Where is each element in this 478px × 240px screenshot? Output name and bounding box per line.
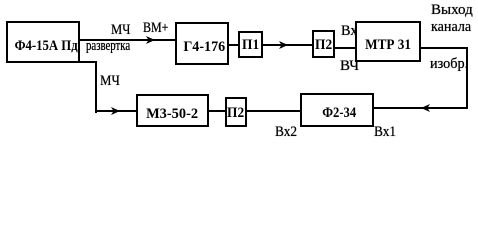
wire W6 vertical down right side <box>466 47 468 109</box>
wire W9 into М3-50-2 <box>95 110 136 112</box>
wire W11 П2 to Ф2-34 <box>247 110 300 112</box>
block U2 Г4-176 <box>175 22 229 65</box>
wire W4 П2 to МТР 31 <box>335 47 355 49</box>
block U4 П2 (top) <box>312 30 335 58</box>
wire W1 Ф4-15А to Г4-176 <box>80 39 175 41</box>
label ВМ+ <box>143 21 168 36</box>
label канала <box>431 20 471 35</box>
wire W2 Г4-176 to П1 <box>229 44 238 46</box>
block U6 М3-50-2 <box>136 94 209 127</box>
block U3 П1 <box>238 31 263 58</box>
arrowhead on wire W7 (points left into Ф2-34) <box>421 104 430 112</box>
label МЧ (top) <box>111 23 130 38</box>
label Выход <box>431 3 473 18</box>
label Вх (pin of МТР 31) <box>341 24 357 39</box>
label Вх1 (pin of Ф2-34) <box>374 125 396 140</box>
arrowhead on wire W1 <box>146 36 155 44</box>
label МЧ (middle left) <box>100 74 120 89</box>
block U5 МТР 31 <box>355 21 421 62</box>
block U1 Ф4-15А Пд <box>6 21 80 63</box>
wire W7 right vertical to Ф2-34 <box>374 107 468 109</box>
wire W8b vertical МЧ down <box>95 61 97 113</box>
wire W8 stub from Ф4-15А bottom <box>78 61 97 63</box>
wire W3 П1 to П2 <box>263 44 312 46</box>
label Вх2 (pin of Ф2-34) <box>275 125 297 140</box>
label ВЧ (pin of МТР 31) <box>340 59 359 74</box>
label развертка <box>86 39 130 54</box>
arrowhead on wire W9 <box>111 107 120 115</box>
block U7 П2 (bottom) <box>225 97 247 127</box>
label изобр. <box>430 57 468 72</box>
arrowhead on wire W3 <box>279 41 288 49</box>
wire W5 МТР 31 output right <box>421 47 468 49</box>
block U8 Ф2-34 <box>300 93 374 127</box>
wire W10 М3-50-2 to П2 <box>209 110 225 112</box>
